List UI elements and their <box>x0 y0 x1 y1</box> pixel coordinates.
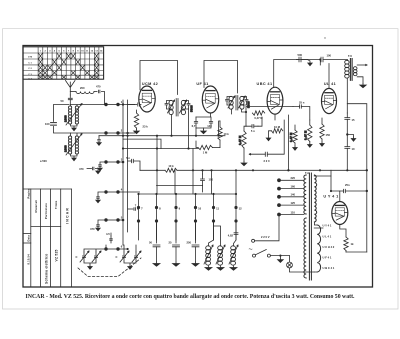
wire pot tap arrow <box>249 154 265 155</box>
svg-text:23 k: 23 k <box>143 125 149 129</box>
wire UL41 grid <box>319 60 321 66</box>
wire T2 to UBC41 <box>232 109 247 126</box>
capacitor 5n AF coupling <box>252 125 254 128</box>
svg-text:125: 125 <box>291 201 296 205</box>
wire speaker output arrow <box>357 64 367 65</box>
svg-text:2 2 0 V: 2 2 0 V <box>261 235 270 239</box>
capacitor IF2 tuning <box>227 97 232 100</box>
svg-text:5000: 5000 <box>247 101 251 108</box>
svg-text:200: 200 <box>80 86 85 90</box>
capacitor 100 top coupling <box>297 59 321 61</box>
svg-text:8.10.54: 8.10.54 <box>26 254 30 265</box>
capacitor with ground row4 <box>98 192 106 196</box>
svg-text:VZ 525: VZ 525 <box>54 249 58 261</box>
svg-text:U F 4 1: U F 4 1 <box>323 256 332 260</box>
svg-text:5 n: 5 n <box>126 156 130 160</box>
svg-text:150: 150 <box>326 133 331 137</box>
svg-text:4.5: 4.5 <box>106 232 110 236</box>
capacitor IF1 sec tuning <box>183 101 189 104</box>
antenna coupling coil <box>76 92 94 94</box>
svg-text:140: 140 <box>291 193 296 197</box>
capacitor 25n smoothing <box>344 189 346 192</box>
svg-text:U B C 4 1: U B C 4 1 <box>323 266 335 270</box>
wire T1 to UF41 grid <box>172 109 189 149</box>
svg-text:U Y 4 1: U Y 4 1 <box>323 195 338 199</box>
svg-text:Particolare: Particolare <box>44 203 48 219</box>
wire UY41 cathode B+ <box>314 170 331 228</box>
svg-text:0,47 M: 0,47 M <box>304 130 308 140</box>
ground trimmers B <box>124 261 136 265</box>
ground after 500 <box>309 62 311 64</box>
ground 10M <box>269 131 272 136</box>
mains contact <box>252 239 255 242</box>
capacitor 100 AGC <box>201 179 205 181</box>
svg-text:O M: O M <box>28 56 32 58</box>
capacitor IF1 tuning <box>167 101 172 104</box>
capacitor 10 tone <box>345 147 350 149</box>
capacitor 25n detector <box>300 105 302 108</box>
wire AVC bus y170 <box>140 169 367 171</box>
svg-text:0,47 M: 0,47 M <box>238 135 242 145</box>
svg-text:25 n: 25 n <box>299 101 305 105</box>
capacitor 500 coupling <box>299 57 301 62</box>
svg-text:10: 10 <box>352 147 355 151</box>
resistor 150 UL41 cathode <box>320 124 324 139</box>
capacitor 470 <box>94 91 97 93</box>
svg-text:1k: 1k <box>351 242 354 246</box>
svg-text:T.U: T.U <box>348 54 352 58</box>
svg-text:U L 4 1: U L 4 1 <box>323 235 332 239</box>
svg-text:140: 140 <box>207 124 212 128</box>
caption text <box>26 294 355 300</box>
svg-text:I N C A R: I N C A R <box>65 208 69 224</box>
capacitor with ground row5 <box>98 220 106 224</box>
svg-text:470: 470 <box>90 227 95 231</box>
capacitor 220 pot tap <box>265 152 267 156</box>
antenna <box>66 81 76 96</box>
wire switch bus horizontal <box>139 193 237 195</box>
svg-text:~: ~ <box>249 247 253 254</box>
junction B+ right <box>366 169 368 171</box>
svg-text:Data: Data <box>26 235 30 242</box>
resistor 10M <box>272 129 283 133</box>
capacitor 15 tone <box>345 118 350 120</box>
svg-text:25n: 25n <box>345 183 350 187</box>
primary winding <box>304 175 306 214</box>
border frame of schematic sheet <box>23 46 373 288</box>
svg-text:6,7: 6,7 <box>192 124 196 128</box>
svg-text:U Y 4 1: U Y 4 1 <box>323 224 332 228</box>
ground speaker <box>357 77 363 84</box>
electrolytic capacitor 250 <box>192 245 199 247</box>
capacitor 7 padding <box>128 208 133 210</box>
resistor 1M <box>198 145 213 149</box>
antenna coil L2 with core arrow <box>69 136 79 154</box>
trimmer capacitor C4 <box>135 252 137 255</box>
wire vertical drops <box>157 136 236 194</box>
svg-text:10 k: 10 k <box>168 164 174 168</box>
oscillator coil L3 <box>206 246 211 265</box>
resistor 10k AVC <box>165 168 177 172</box>
capacitor IF2 sec tuning <box>242 97 247 100</box>
wire UBC41 plate to top <box>274 60 297 88</box>
svg-text:UF 41: UF 41 <box>196 82 208 86</box>
tube UBC41 <box>267 87 283 114</box>
svg-text:10 M: 10 M <box>274 125 281 129</box>
band switch S2 contacts <box>137 206 140 209</box>
wire HT to UY41 <box>314 176 331 191</box>
electrolytic capacitor 25 <box>173 245 180 247</box>
svg-text:470: 470 <box>79 167 84 171</box>
wire AVC bus <box>287 115 289 170</box>
transformer core <box>309 173 311 280</box>
wire UCH42 plate loop <box>140 61 178 95</box>
svg-text:50: 50 <box>61 99 64 103</box>
tube UY41 <box>332 202 348 225</box>
svg-text:C: C <box>76 255 78 259</box>
tube UL41 <box>322 88 337 113</box>
tube UF41 <box>202 86 218 113</box>
primary winding taps <box>277 178 281 182</box>
svg-text:100: 100 <box>209 178 214 182</box>
band switch S1 contacts <box>104 103 107 106</box>
antenna coil L1 with core arrow <box>69 106 79 124</box>
resistor 22k <box>134 113 138 128</box>
wire T.U primary <box>346 60 348 114</box>
IF transformer T1 <box>169 100 185 114</box>
wire bus y139 <box>123 139 161 148</box>
svg-text:Pagina: Pagina <box>26 188 30 198</box>
heater secondary winding <box>317 225 320 272</box>
primary winding lower <box>304 218 306 278</box>
resistor 0.47M UBC41 grid leak <box>252 111 264 115</box>
capacitor 140 <box>209 122 212 124</box>
svg-text:1 M: 1 M <box>203 151 208 155</box>
svg-text:a 500: a 500 <box>40 159 47 163</box>
ground antenna coil L1 <box>71 124 78 126</box>
svg-text:500: 500 <box>298 53 303 57</box>
svg-text:50: 50 <box>149 241 152 245</box>
trimmer capacitor C3 <box>123 252 125 255</box>
electrolytic capacitor 50 <box>153 245 160 247</box>
dashed gang coupling <box>78 267 130 277</box>
svg-text:T.A: T.A <box>305 171 309 175</box>
svg-text:2 2 0: 2 2 0 <box>264 159 270 163</box>
ground cathode caps <box>203 128 205 130</box>
ground trimmers A <box>84 261 96 265</box>
svg-text:160: 160 <box>291 184 296 188</box>
ground tone mid <box>346 133 348 135</box>
svg-text:Materiali: Materiali <box>34 200 38 213</box>
svg-text:25: 25 <box>169 241 172 245</box>
svg-text:5000: 5000 <box>190 105 194 112</box>
svg-text:Titolo: Titolo <box>54 200 58 209</box>
wire sub bus <box>157 185 203 187</box>
wire bus y148.5 <box>123 148 198 150</box>
svg-text:12: 12 <box>239 206 242 210</box>
resistor 10k screen <box>218 127 222 140</box>
coil winding table <box>23 47 104 79</box>
wire top strap UBC41 to UL41 <box>246 107 293 113</box>
oscillator coil L5 <box>231 246 236 265</box>
wire trimmers B up <box>123 245 136 252</box>
title block <box>23 189 71 287</box>
capacitor 5n AVC <box>132 159 134 162</box>
svg-text:250: 250 <box>187 241 192 245</box>
capacitor 4.7 <box>194 122 197 124</box>
mains switch <box>253 254 256 257</box>
wire screen feeds <box>202 170 204 192</box>
capacitor with ground bus end <box>98 136 100 139</box>
svg-text:11: 11 <box>216 206 219 210</box>
resistor 0.47M third <box>308 125 312 142</box>
svg-text:UCM 42: UCM 42 <box>142 82 158 86</box>
svg-text:0,47 M: 0,47 M <box>289 132 293 142</box>
svg-text:10: 10 <box>198 206 201 210</box>
tube UCH42 <box>139 86 155 112</box>
wire UF41 cathode group <box>196 113 220 148</box>
svg-text:100: 100 <box>327 54 332 58</box>
dial lamp <box>287 262 293 268</box>
capacitor grid UCH42 <box>128 104 137 106</box>
HT secondary winding <box>314 175 316 222</box>
svg-text:UL 41: UL 41 <box>324 82 336 86</box>
resistor 0.47M second <box>293 130 297 143</box>
svg-text:4,82: 4,82 <box>228 234 234 238</box>
capacitor 470 lower <box>87 168 92 170</box>
svg-text:5 n: 5 n <box>251 129 255 133</box>
wire trimmers A to switch <box>84 249 106 252</box>
capacitor 100 antenna shunt <box>54 105 71 134</box>
wire coil L1 to switch <box>80 104 105 106</box>
svg-text:C: C <box>116 255 118 259</box>
svg-text:INCAR - Mod. VZ 525. Ricevi: INCAR - Mod. VZ 525. Ricevitore a onde c… <box>26 294 355 300</box>
svg-text:UBC 41: UBC 41 <box>257 82 273 86</box>
wire UF41 plate loop <box>204 61 238 94</box>
resistor 1k filter <box>344 237 348 251</box>
svg-text:Schema elettrico: Schema elettrico <box>45 254 49 284</box>
ground mains <box>279 256 281 259</box>
trimmer capacitor C1 <box>83 252 85 255</box>
table X marks <box>39 53 99 78</box>
capacitor with ground row3 <box>100 162 106 164</box>
wire bus y135.7 <box>99 135 225 137</box>
trimmer capacitor C2 <box>95 252 97 255</box>
svg-text:100: 100 <box>45 122 50 126</box>
wire UBC41 cathode <box>258 114 275 126</box>
capacitor 4.82 padder <box>234 233 238 235</box>
svg-text:110: 110 <box>291 210 296 214</box>
ground antenna coil L2 <box>71 154 78 156</box>
svg-text:1000: 1000 <box>64 115 68 122</box>
resistor 0.47M volume pot <box>242 131 246 148</box>
svg-text:1000: 1000 <box>64 145 68 152</box>
wire switch bus vertical <box>123 100 128 245</box>
svg-text:220: 220 <box>291 176 296 180</box>
capacitor 4.5 <box>110 236 112 238</box>
svg-text:15: 15 <box>352 118 355 122</box>
svg-text:470: 470 <box>96 85 101 89</box>
IF transformer T2 <box>229 96 244 109</box>
capacitor 50 antenna series <box>69 95 71 98</box>
svg-text:U C H 4 2: U C H 4 2 <box>323 245 335 249</box>
oscillator coil L4 <box>218 246 223 265</box>
wire speaker feedback vertical <box>347 104 367 252</box>
